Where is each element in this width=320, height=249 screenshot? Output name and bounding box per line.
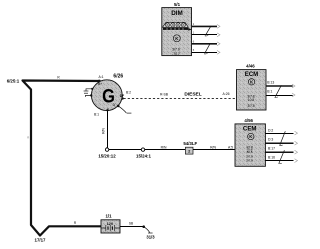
- svg-text:K: K: [250, 80, 253, 85]
- svg-text:17/17: 17/17: [35, 238, 47, 243]
- DIM wire 1 arrow: [217, 25, 220, 29]
- CEM wires crossover slash 2: [279, 150, 284, 163]
- svg-text:15/24:1: 15/24:1: [136, 153, 151, 158]
- dashed wire DF to ECM A:26: [124, 98, 237, 100]
- DIM pin wire 3 (bold): [192, 43, 217, 45]
- wire node to connector 54/3LF: [145, 149, 186, 151]
- CEM wire D:3 arrow: [295, 141, 298, 145]
- generator ground terminal dots: [91, 88, 93, 90]
- ground lead to 31/3: [144, 227, 150, 233]
- svg-text:DIESEL: DIESEL: [184, 92, 201, 98]
- ECM wire B:13 arrow: [292, 84, 295, 88]
- DIM wires crossover slash 1: [206, 26, 211, 35]
- svg-text:SB: SB: [129, 222, 133, 226]
- ECM wires crossover slash: [275, 85, 281, 96]
- node 15/20:12: [105, 148, 108, 151]
- CEM wires crossover slash 1: [280, 131, 285, 145]
- CEM pin wire B:16 (thin): [265, 160, 293, 162]
- generator internal ground / capacitor symbol: [84, 89, 92, 97]
- svg-text:DIM: DIM: [171, 10, 183, 17]
- ECM wire B:1 arrow: [292, 93, 295, 97]
- svg-text:3/7.8: 3/7.8: [247, 104, 254, 108]
- svg-text:6/25:1: 6/25:1: [7, 79, 20, 84]
- DIM pin wire 2 (thin): [192, 34, 217, 36]
- DIM wires crossover slash 2: [205, 44, 210, 54]
- CEM circled K symbol: [248, 133, 254, 139]
- DIM wire 2 arrow: [217, 33, 220, 37]
- node 15/24:1: [141, 148, 144, 151]
- CEM wire D:2 arrow: [295, 131, 298, 135]
- svg-text:A:5: A:5: [228, 146, 233, 150]
- CEM pin wire D:3 (bold): [265, 142, 293, 144]
- ECM pin wire B:13 (bold): [266, 85, 293, 87]
- wire battery positive bus (6/25:1 to generator B+ and down via 17/17 to battery): [23, 81, 102, 236]
- svg-text:A:1: A:1: [98, 75, 103, 79]
- svg-text:31/3: 31/3: [146, 234, 155, 239]
- DIM pin wire 4 (thin): [192, 52, 217, 54]
- CEM wire B:16 arrow: [295, 159, 298, 163]
- ground junction dot: [142, 225, 145, 228]
- svg-text:4/46: 4/46: [246, 64, 255, 69]
- svg-text:B:13: B:13: [267, 81, 274, 85]
- DIM pin wire 1 (bold): [192, 25, 217, 27]
- ECM circled K symbol: [248, 79, 254, 85]
- svg-text:10.8: 10.8: [248, 98, 254, 102]
- generator case ground pigtail: [117, 105, 120, 108]
- svg-text:B:16: B:16: [268, 156, 275, 160]
- svg-text:ECM: ECM: [245, 71, 259, 78]
- DIM gauge cluster icon: [163, 22, 192, 30]
- svg-text:B:1: B:1: [267, 89, 272, 93]
- svg-text:1/1: 1/1: [105, 213, 112, 218]
- wire battery to ground 31/3: [120, 226, 144, 228]
- terminal dot at B- output: [106, 109, 108, 111]
- wire generator B:1 down to node: [106, 111, 108, 148]
- svg-text:-70.7: -70.7: [172, 52, 180, 56]
- svg-text:R/N: R/N: [161, 146, 167, 150]
- svg-text:B:2: B:2: [126, 91, 131, 95]
- svg-text:D:3: D:3: [268, 137, 273, 141]
- CEM pin wire D:2 (thin): [265, 133, 293, 135]
- svg-text:B:17: B:17: [268, 146, 275, 150]
- svg-text:5/1: 5/1: [174, 2, 181, 7]
- DIM wire 3 arrow: [217, 42, 220, 46]
- wire between nodes: [109, 149, 142, 151]
- DIM wire 4 arrow: [217, 51, 220, 55]
- ECM pin wire B:1 (thin): [266, 95, 293, 97]
- svg-text:R/N: R/N: [210, 146, 216, 150]
- wire connector to CEM A:5: [193, 149, 235, 151]
- svg-text:CEM: CEM: [243, 126, 257, 133]
- svg-text:4/56: 4/56: [244, 118, 253, 123]
- svg-text:DF: DF: [120, 94, 125, 98]
- svg-text:B:1: B:1: [94, 113, 99, 117]
- svg-text:3/7.8: 3/7.8: [246, 158, 253, 162]
- CEM wire B:17 arrow: [295, 150, 298, 154]
- svg-text:R/N: R/N: [102, 128, 106, 134]
- DIM circled K symbol: [173, 35, 180, 42]
- svg-text:A:26: A:26: [223, 92, 230, 96]
- svg-text:D:2: D:2: [268, 128, 273, 132]
- terminal dot at A:1: [98, 80, 100, 82]
- svg-text:R-SB: R-SB: [160, 92, 169, 96]
- svg-text:6/26: 6/26: [113, 73, 123, 79]
- svg-text:3/7.9: 3/7.9: [172, 47, 180, 51]
- svg-text:54/3LF: 54/3LF: [183, 141, 197, 146]
- svg-text:15/20:12: 15/20:12: [98, 153, 116, 158]
- svg-text:B+: B+: [98, 82, 102, 86]
- CEM pin wire B:17 (bold): [265, 151, 293, 153]
- terminal dot at DF output: [121, 97, 123, 99]
- svg-text:K: K: [249, 134, 252, 139]
- generator G 6/26 body: [91, 80, 122, 111]
